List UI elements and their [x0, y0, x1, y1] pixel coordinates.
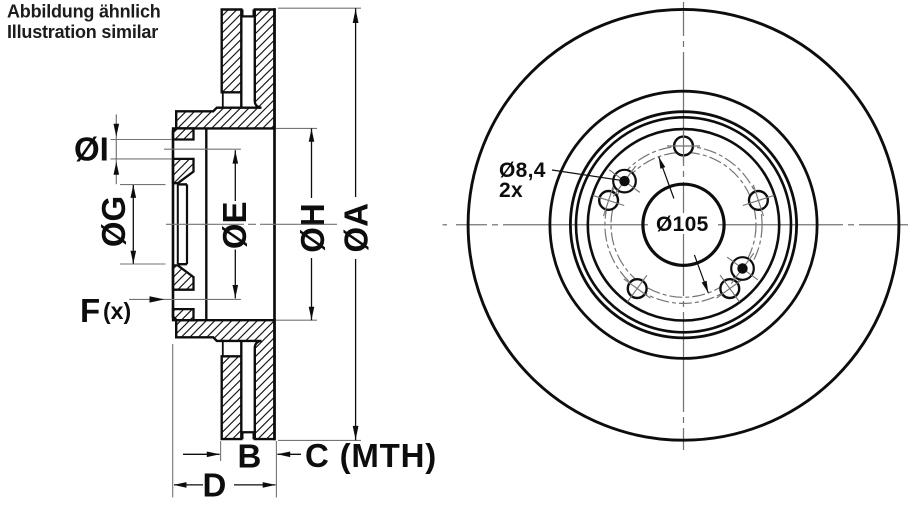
set screw hole 1 (O8,4) — [609, 166, 640, 197]
svg-text:ØE: ØE — [216, 201, 253, 249]
dimension OE — [234, 150, 236, 201]
mounting/back face — [273, 8, 276, 440]
svg-text:C (MTH): C (MTH) — [305, 437, 437, 474]
lower right friction plate + hat flange section — [176, 320, 274, 439]
dimension OI (bolt hole diameter) — [111, 139, 173, 141]
svg-text:(x): (x) — [103, 298, 131, 324]
svg-text:Ø105: Ø105 — [656, 213, 709, 236]
svg-text:ØA: ØA — [337, 203, 374, 253]
hat step circle — [576, 117, 791, 332]
vent slot OD groove — [241, 431, 255, 433]
O8,4 2x label with leader — [552, 170, 624, 181]
svg-text:Illustration similar: Illustration similar — [7, 22, 158, 42]
hub pilot front face — [172, 131, 175, 319]
set screw hole 2 (O8,4) — [727, 253, 758, 284]
svg-text:ØH: ØH — [294, 203, 331, 253]
undercut groove wall — [222, 341, 224, 357]
upper left friction plate section — [222, 10, 242, 93]
bolt hole centerline lower / F(x) leader — [129, 298, 241, 300]
bolt hole centerline upper — [164, 148, 241, 150]
upper hub flange section below bolt hole — [173, 159, 194, 183]
lower hub flange section above bolt hole — [173, 309, 194, 320]
dimension B (disc thickness) — [220, 441, 222, 461]
upper right friction plate + hat flange section — [176, 10, 274, 129]
svg-text:ØG: ØG — [95, 196, 132, 247]
flange edge circle — [588, 129, 779, 320]
right view centerline vertical — [683, 2, 685, 36]
bolt pitch circle (dash-dot) — [605, 146, 762, 303]
flange step chamfer — [173, 317, 176, 320]
dimension D (hat height) — [172, 344, 174, 498]
right view centerline horizontal — [443, 224, 448, 226]
screw hole circle O105 (dash-dot) — [611, 152, 756, 297]
wheel bolt hole 1 — [667, 130, 700, 163]
svg-text:ØI: ØI — [74, 131, 109, 168]
friction band inner circle — [550, 91, 817, 358]
lower hub flange section below bolt hole — [173, 265, 194, 289]
hat outer edge circle — [570, 112, 796, 338]
lower left friction plate section — [222, 356, 242, 439]
centre bore circle — [643, 184, 724, 265]
undercut groove wall — [222, 92, 224, 108]
svg-text:D: D — [203, 467, 227, 504]
dimension OA (outer diameter) — [278, 7, 361, 9]
O105 dimension line across screw circle — [659, 157, 674, 199]
dimension OH — [276, 127, 317, 129]
vent slot OD groove — [241, 15, 255, 17]
wheel bolt hole 5 — [717, 275, 744, 302]
svg-text:B: B — [238, 438, 262, 475]
hat interior bore silhouette — [205, 128, 207, 320]
svg-text:2x: 2x — [499, 179, 523, 202]
wheel bolt hole 4 — [624, 275, 651, 302]
flange step chamfer — [173, 129, 176, 132]
dimension OG (centre bore) — [120, 184, 166, 186]
center bore surface — [177, 184, 179, 264]
upper hub flange section above bolt hole — [173, 128, 194, 139]
wheel bolt hole 3 — [593, 185, 624, 216]
svg-text:Abbildung ähnlich: Abbildung ähnlich — [7, 1, 161, 21]
left view centerline — [166, 223, 337, 225]
wheel bolt hole 2 — [743, 185, 774, 216]
svg-text:F: F — [80, 292, 100, 329]
disc outer diameter circle — [468, 9, 899, 440]
